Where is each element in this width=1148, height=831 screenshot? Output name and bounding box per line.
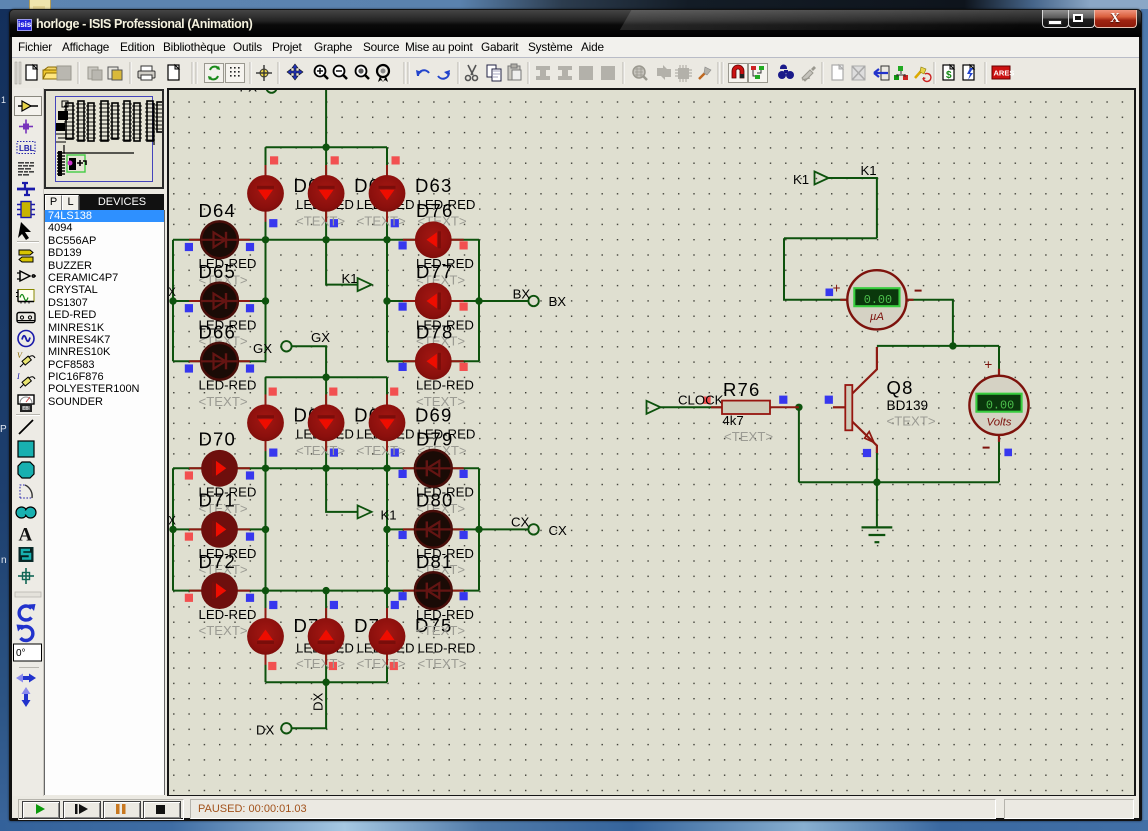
logic indicator blue below D6x col 265.5 — [269, 219, 277, 227]
palette: separator — [17, 241, 39, 243]
wire: column c2 through D68 — [325, 377, 327, 468]
wire: column c1 lower segment — [265, 240, 267, 361]
wire: row bus block 2 (through D70 and D79) — [173, 467, 479, 469]
svg-text:BX: BX — [513, 287, 531, 302]
svg-text:R76: R76 — [723, 379, 761, 400]
toolbar: save (disabled) — [57, 66, 71, 80]
svg-text:Volts: Volts — [987, 417, 1012, 429]
svg-text:4k7: 4k7 — [722, 413, 743, 428]
toolbar: new sheet (disabled) — [832, 65, 843, 80]
indicator left of D76 — [399, 241, 407, 249]
LED D79 (off) — [403, 450, 464, 487]
toolbar: toggle grid (pressed) — [226, 64, 245, 83]
svg-text:LED-RED: LED-RED — [416, 607, 474, 622]
palette: separator with ledge — [15, 592, 41, 597]
indicator left of D77 — [399, 303, 407, 311]
svg-text:DX: DX — [256, 722, 275, 737]
node: bracket 2 junction — [169, 526, 176, 533]
desktop wallpaper bottom strip with waves — [0, 820, 1148, 831]
svg-text:K1: K1 — [381, 508, 397, 523]
wire: left bracket block 1 — [172, 240, 174, 361]
wire: base feedback wire — [798, 407, 800, 482]
LED D75 (lit) — [369, 608, 406, 665]
svg-text:D65: D65 — [199, 261, 237, 282]
svg-text:Q8: Q8 — [887, 377, 914, 398]
wire: GX bus — [266, 376, 388, 378]
wire: row 3 left segment through D66 — [173, 360, 266, 362]
svg-text:CX: CX — [549, 523, 568, 538]
LED D66 (off) — [189, 343, 250, 380]
toolbar: property assignment (disabled) — [802, 70, 813, 81]
palette: voltage probe mode — [17, 351, 35, 367]
device list — [44, 210, 165, 795]
svg-text:X: X — [169, 287, 176, 299]
wire: K1 stub upper — [326, 240, 358, 285]
palette: rotation angle box — [14, 644, 42, 661]
svg-text:+: + — [984, 357, 992, 372]
wire: K1 horizontal run — [784, 237, 877, 239]
wire: K1 terminal to bend — [828, 178, 877, 238]
logic indicator red on CLOCK wire — [703, 397, 710, 404]
toolbar: block move (disabled) — [558, 66, 572, 80]
desktop wallpaper left strip — [0, 9, 13, 825]
terminal: K1 input — [815, 172, 829, 185]
toolbar: block rotate (disabled) — [579, 66, 593, 80]
palette: gate / device pin mode — [17, 271, 36, 281]
indicator right of D81 — [460, 592, 468, 600]
svg-text:BD139: BD139 — [887, 398, 929, 413]
wire: BX tap wire — [479, 300, 529, 302]
toolbar: find (binoculars) — [780, 65, 787, 70]
minimize button — [1042, 10, 1069, 28]
node: c1 row2 junction — [262, 297, 269, 304]
node: bracket 1 junction — [169, 297, 176, 304]
palette: terminal mode (selected) — [15, 97, 42, 116]
device list header — [44, 194, 164, 210]
step button — [63, 801, 101, 819]
toolbar: zoom all — [356, 66, 367, 77]
wire: ammeter - to junction — [907, 300, 953, 346]
wire: emitter bottom bus — [799, 481, 999, 483]
toolbar: block delete (disabled) — [601, 66, 615, 80]
toolbar: electrical report — [963, 65, 974, 80]
indicator right of D71 — [246, 533, 254, 541]
schematic editor area — [167, 88, 1136, 797]
ammeter (uA) — [840, 270, 913, 329]
node: ground junction — [873, 479, 880, 486]
node: row 6 junction x=387.0 — [383, 587, 390, 594]
svg-text:D70: D70 — [199, 429, 237, 450]
svg-text:V: V — [17, 351, 23, 360]
voltmeter - mark — [983, 447, 990, 449]
wire: row 5 right segment through D80 — [387, 528, 479, 530]
wire: column c2 through D62 — [325, 147, 327, 240]
palette: subcircuit mode — [17, 202, 35, 218]
svg-text:0.00: 0.00 — [864, 293, 892, 307]
svg-text:D79: D79 — [416, 429, 454, 450]
svg-text:BX: BX — [549, 294, 567, 309]
logic indicator red above D67-69 col 387.0 — [390, 388, 398, 396]
svg-text:D81: D81 — [416, 551, 454, 572]
svg-text:<TEXT>: <TEXT> — [357, 656, 406, 671]
indicator left of D711 — [399, 592, 407, 600]
node: collector net junction — [949, 342, 956, 349]
wire: GX wire — [291, 346, 326, 377]
svg-text:LED-RED: LED-RED — [416, 378, 474, 393]
wire: column c3 through D75 — [386, 591, 388, 683]
wire: column c3 through D69 — [386, 377, 388, 468]
ammeter - mark — [915, 290, 922, 292]
wire: row 5 left segment through D71 — [173, 528, 266, 530]
wire: column c3 through D63 — [386, 147, 388, 240]
indicator right of D79 — [460, 470, 468, 478]
svg-text:GX: GX — [253, 341, 272, 356]
toolbar: open folder — [44, 67, 57, 70]
toolbar: print — [138, 71, 155, 78]
svg-text:X: X — [169, 516, 176, 528]
toolbar: redraw (boxed) — [205, 64, 224, 83]
svg-text:<TEXT>: <TEXT> — [418, 656, 467, 671]
toolbar: netlist view — [898, 66, 903, 71]
wire: right bracket block 2 — [478, 468, 480, 590]
indicator right of D72 — [246, 594, 254, 602]
node: GX bus junction — [322, 374, 329, 381]
palette: 2D text mode — [19, 525, 33, 546]
node: CX junction — [475, 526, 482, 533]
palette: bus mode — [17, 183, 35, 195]
wire: row 3 right segment through D78 — [387, 360, 479, 362]
toolbar: mark print area — [168, 65, 179, 80]
toolbar: make device (disabled) — [657, 65, 671, 80]
toolbar: bill of materials — [943, 65, 954, 80]
svg-text:<TEXT>: <TEXT> — [416, 623, 465, 638]
svg-text:LED-RED: LED-RED — [199, 378, 257, 393]
logic indicator blue above D73-75 col 326.1 — [330, 601, 338, 609]
LED D69 (lit) — [369, 394, 406, 451]
indicator left of D79 — [399, 470, 407, 478]
svg-text:CX: CX — [511, 514, 530, 529]
svg-text:<TEXT>: <TEXT> — [296, 214, 345, 229]
maximize button — [1068, 10, 1095, 28]
LED D78 (lit) — [403, 343, 464, 380]
indicator left of D70 — [185, 471, 193, 479]
svg-text:LED-RED: LED-RED — [418, 641, 476, 656]
svg-text:CLOCK: CLOCK — [678, 392, 724, 407]
wire: column c2 through D74 — [325, 591, 327, 683]
indicator right of D80 — [460, 531, 468, 539]
palette: junction dot mode — [19, 120, 33, 134]
palette: virtual instrument mode — [18, 395, 34, 412]
indicator at voltmeter - — [1004, 449, 1012, 457]
terminal: BX output — [528, 296, 538, 306]
grid dots — [169, 90, 1134, 795]
palette: 2D symbol mode — [19, 547, 34, 562]
desktop folder icon (clipped) — [29, 0, 51, 11]
wire: main row bus (through D64 and D76) — [173, 239, 479, 241]
svg-text:GX: GX — [311, 330, 330, 345]
indicator left of D710 — [399, 531, 407, 539]
palette: graph mode — [16, 290, 34, 304]
palette: current probe mode — [16, 372, 35, 388]
logic indicator blue above D73-75 col 387.0 — [391, 601, 399, 609]
wire: emitter down wire — [876, 452, 878, 482]
toolbar: redo — [438, 73, 449, 79]
logic indicator red above D6x col 387.0 — [392, 156, 400, 164]
wire: down to ammeter + — [784, 238, 847, 299]
ISIS program icon — [17, 19, 32, 31]
logic indicator red below D73-75 col 326.1 — [329, 662, 337, 670]
logic indicator red above D6x col 326.1 — [331, 156, 339, 164]
indicator right of D64 — [246, 243, 254, 251]
overview: sheet border — [56, 97, 153, 182]
node: row 6 junction x=265.5 — [262, 587, 269, 594]
indicator left of D64 — [185, 243, 193, 251]
LED D76 (lit) — [403, 221, 464, 258]
svg-text:$: $ — [946, 70, 952, 81]
terminal: CLOCK input — [647, 401, 661, 414]
svg-text:0.00: 0.00 — [986, 399, 1014, 413]
terminal: DX output — [281, 723, 291, 733]
svg-text:<TEXT>: <TEXT> — [199, 623, 248, 638]
wire: top bus — [266, 146, 388, 148]
logic indicator blue below D67-69 col 387.0 — [391, 449, 399, 457]
toolbar: pan — [287, 64, 303, 80]
palette: mirror vertical — [22, 687, 31, 707]
palette: 2D box mode — [18, 441, 34, 457]
palette: mirror horizontal — [16, 674, 36, 683]
indicator right of D65 — [246, 304, 254, 312]
indicator right of D70 — [246, 471, 254, 479]
indicator right of D77 — [460, 303, 468, 311]
wire: stub to left edge — [170, 300, 173, 302]
toolbar: origin — [260, 69, 268, 77]
node: row bus 2 junction x=387.0 — [383, 465, 390, 472]
node: BX junction — [475, 297, 482, 304]
close button — [1094, 10, 1137, 28]
LED D65 (off) — [189, 283, 250, 320]
node: row bus junction x=265.5 — [262, 236, 269, 243]
logic indicator red above D67-69 col 265.5 — [269, 388, 277, 396]
palette: 2D circle mode — [18, 462, 34, 478]
transistor Q8 (BD139) — [833, 347, 877, 453]
wire: bottom bus — [266, 681, 388, 683]
status bar message segment — [190, 799, 996, 819]
svg-text:<TEXT>: <TEXT> — [199, 394, 248, 409]
node: row bus junction x=326.1 — [322, 236, 329, 243]
toolbar: zoom out — [334, 66, 345, 77]
indicator right of D76 — [460, 241, 468, 249]
LED D77 (lit) — [403, 283, 464, 320]
LED D61 (lit) — [247, 165, 284, 222]
logic indicator red below D73-75 col 265.5 — [268, 662, 276, 670]
title bar — [10, 10, 1141, 37]
svg-text:+: + — [833, 281, 841, 296]
LED D74 (lit) — [308, 608, 345, 665]
play button — [22, 801, 60, 819]
wire: column c1 through D67 — [265, 377, 267, 468]
svg-text:<TEXT>: <TEXT> — [296, 656, 345, 671]
palette: rotate clockwise — [19, 604, 35, 620]
clipped PX terminal at top edge — [266, 82, 276, 92]
indicator left of D72 — [185, 594, 193, 602]
palette: rotate anticlockwise — [17, 625, 33, 641]
wire: column c1 through D61 — [265, 147, 267, 240]
wire: to voltmeter + — [998, 346, 1000, 376]
toolbar: decompose — [699, 72, 706, 79]
palette: 2D line mode — [19, 420, 33, 434]
wire: CX tap wire — [479, 528, 529, 530]
ground symbol — [862, 527, 893, 542]
svg-text:D76: D76 — [416, 200, 454, 221]
svg-text:<TEXT>: <TEXT> — [887, 413, 936, 428]
svg-text:D72: D72 — [199, 551, 237, 572]
palette: text script mode — [18, 162, 34, 176]
wire: K1 stub lower — [326, 468, 358, 512]
svg-text:LED-RED: LED-RED — [199, 607, 257, 622]
node: row bus 2 junction x=326.1 — [322, 465, 329, 472]
svg-text:<TEXT>: <TEXT> — [357, 443, 406, 458]
palette: 2D closed path mode — [16, 507, 36, 518]
node: c3 row2 junction — [383, 297, 390, 304]
toolbar: goto sheet — [881, 66, 889, 80]
wire: ground stem — [876, 482, 878, 527]
svg-text:D71: D71 — [199, 490, 237, 511]
svg-text:K1: K1 — [793, 172, 809, 187]
toolbar: zoom in — [315, 66, 326, 77]
wire: top feed into sheet — [325, 90, 327, 147]
indicator at Q8 base — [825, 396, 833, 404]
node: c3 row5 junction — [383, 526, 390, 533]
logic indicator blue above D73-75 col 265.5 — [269, 601, 277, 609]
indicator left of base junction — [779, 396, 787, 404]
svg-text:µA: µA — [870, 311, 884, 323]
terminal: K1 pointer lower — [358, 505, 372, 518]
toolbar: cut — [468, 65, 476, 75]
logic indicator blue below D67-69 col 326.1 — [330, 449, 338, 457]
node: bottom bus junction — [322, 679, 329, 686]
logic indicator red above D67-69 col 326.1 — [329, 388, 337, 396]
svg-text:<TEXT>: <TEXT> — [296, 443, 345, 458]
stop button — [143, 801, 181, 819]
svg-text:K1: K1 — [861, 163, 877, 178]
pause button — [103, 801, 141, 819]
resistor R76 — [711, 401, 799, 414]
palette: separator — [19, 667, 39, 669]
logic indicator blue below D6x col 326.1 — [330, 219, 338, 227]
svg-text:A: A — [19, 525, 33, 546]
toolbar: search and tag (pressed) — [749, 64, 768, 83]
svg-text:D64: D64 — [199, 200, 237, 221]
LED D71 (lit) — [189, 511, 250, 548]
LED D64 (off) — [189, 221, 250, 258]
LED D73 (lit) — [247, 608, 284, 665]
toolbar: import (disabled) — [88, 67, 98, 79]
node: top bus junction — [322, 144, 329, 151]
toolbar: copy — [487, 65, 496, 77]
toolbar: delete sheet (disabled) — [852, 66, 865, 80]
status row background — [12, 796, 1139, 818]
overview / world map panel — [44, 89, 164, 189]
svg-text:0°: 0° — [16, 648, 26, 659]
toolbar: undo — [418, 70, 429, 76]
logic indicator blue below D67-69 col 265.5 — [269, 449, 277, 457]
palette: component mode — [19, 250, 33, 262]
menu bar — [12, 37, 1139, 58]
LED D72 (lit) — [189, 572, 250, 609]
desktop wallpaper top strip — [0, 0, 1148, 14]
wire: row 2 right segment through D77 — [387, 300, 479, 302]
terminal: K1 pointer upper — [358, 278, 372, 291]
svg-text:D66: D66 — [199, 322, 237, 343]
wire: column c3 lower segment — [386, 240, 388, 361]
svg-text:<TEXT>: <TEXT> — [724, 429, 773, 444]
overview: mini schematic ICs — [66, 103, 73, 139]
palette: generator mode — [18, 331, 34, 347]
LED D68 (lit) — [308, 394, 345, 451]
toolbar: packaging tool (disabled) — [678, 68, 689, 79]
svg-text:LBL: LBL — [19, 144, 35, 153]
svg-text:I: I — [16, 372, 20, 381]
LED D67 (lit) — [247, 394, 284, 451]
wire: CLOCK wire to R76 — [660, 406, 722, 408]
svg-text:PX: PX — [240, 90, 258, 94]
logic indicator blue below D6x col 387.0 — [391, 219, 399, 227]
node: base junction — [795, 404, 802, 411]
toolbar: ARES netlist transfer — [992, 66, 1010, 79]
indicator at ammeter + — [826, 289, 834, 297]
toolbar: export — [108, 67, 118, 79]
LED D63 (lit) — [369, 165, 406, 222]
wire: column c1 segment block 2 — [265, 468, 267, 590]
status bar right segment — [1004, 799, 1134, 819]
logic indicator red below D73-75 col 387.0 — [390, 662, 398, 670]
wire: column c3 segment block 2 — [386, 468, 388, 590]
terminal: CX output — [528, 524, 538, 534]
indicator left of D66 — [185, 364, 193, 372]
svg-text:<TEXT>: <TEXT> — [416, 394, 465, 409]
wire: collector net horizontal — [877, 345, 999, 347]
palette: instant edit / selection — [18, 222, 31, 240]
node: row bus 2 junction x=265.5 — [262, 465, 269, 472]
desktop wallpaper right strip — [1141, 9, 1148, 825]
toolbar: electrical rules check — [915, 70, 922, 78]
svg-text:D77: D77 — [416, 261, 454, 282]
logic indicator red above D6x col 265.5 — [270, 156, 278, 164]
svg-text:ARES: ARES — [994, 69, 1015, 78]
palette: terminal arrow icon — [18, 101, 38, 111]
palette: tape recorder mode — [17, 313, 35, 323]
wire: row 2 left segment through D65 — [173, 300, 266, 302]
terminal: GX input — [281, 341, 291, 351]
palette: 2D arc mode — [20, 485, 32, 498]
toolbar: zoom area — [377, 65, 389, 77]
svg-text:EB: EB — [23, 406, 29, 411]
indicator left of D65 — [185, 304, 193, 312]
left mode toolbar (palette) — [13, 88, 44, 796]
indicator left of D71 — [185, 533, 193, 541]
wire: stub to left edge block 2 — [170, 528, 173, 530]
wire: DX wire — [291, 682, 326, 728]
svg-text:D63: D63 — [415, 175, 453, 196]
indicator right of D78 — [460, 363, 468, 371]
palette: separator — [16, 414, 40, 416]
indicator right of D66 — [246, 364, 254, 372]
animation control panel — [18, 799, 184, 820]
toolbar: paste — [508, 66, 520, 80]
wire: right bracket block 1 — [478, 240, 480, 361]
wire: voltmeter - to bottom bus — [998, 435, 1000, 482]
svg-text:D80: D80 — [416, 490, 454, 511]
